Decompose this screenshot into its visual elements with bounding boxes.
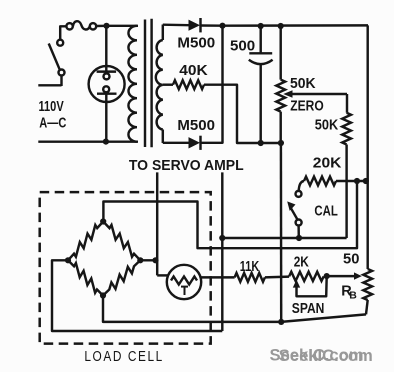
resistor RB: [363, 269, 372, 300]
wire 20K junction link: [336, 180, 368, 182]
node cap top: [258, 23, 264, 29]
wire secondary top lead: [163, 23, 189, 26]
node 2K right: [324, 273, 330, 279]
wire bottom run to RB: [281, 314, 366, 322]
node rectifier minus to bottom run: [278, 319, 284, 325]
node CAL bottom junction: [296, 235, 302, 241]
wire 40K to minus rail: [204, 85, 281, 143]
fuse F1 left terminal: [66, 23, 72, 29]
pot ZERO wiper arrow: [283, 90, 292, 98]
transformer T1 primary winding: [128, 26, 137, 142]
svg-text:110V: 110V: [39, 99, 64, 115]
pot SPAN wiper: [293, 280, 300, 288]
wire bottom node run: [103, 296, 281, 322]
bridge resistor top-right: [103, 222, 140, 261]
label T: [181, 286, 188, 288]
potentiometer 2K SPAN: [289, 272, 324, 281]
wire center tap: [163, 83, 173, 85]
wire switch to fuse: [60, 26, 66, 39]
wire 20K to switch: [299, 181, 304, 191]
wire bridge-top to 20K junction: [103, 181, 357, 248]
wire RB bottom tail: [366, 300, 368, 314]
wire 11K to 2K: [265, 275, 289, 278]
wire servo stub B: [221, 172, 223, 331]
lamp V1 bottom electrode disc: [103, 86, 109, 92]
wire D2 cathode riser: [201, 26, 223, 143]
capacitor C1 plate: [249, 52, 272, 54]
lamp V1 top electrode disc: [104, 73, 110, 79]
node zero top: [278, 23, 284, 29]
svg-text:SPAN: SPAN: [292, 301, 325, 317]
wire zero top lead: [279, 26, 281, 80]
wire fuse to node: [96, 25, 106, 28]
svg-text:SeekIC.com: SeekIC.com: [279, 346, 373, 365]
transformer T1 core: [144, 20, 146, 148]
node bridge-right junction: [152, 257, 158, 263]
svg-text:M500: M500: [177, 36, 215, 52]
svg-text:2K: 2K: [294, 255, 310, 271]
switch CAL top contact: [296, 191, 302, 197]
svg-text:A—C: A—C: [39, 116, 66, 132]
node lamp-top junction: [103, 23, 109, 29]
wire lamp top lead: [105, 26, 107, 72]
node D1-D2 cathode junction: [219, 23, 225, 29]
svg-text:B: B: [349, 289, 357, 301]
thermistor T1 envelope: [167, 265, 201, 299]
wire 2K to RB arrow: [327, 275, 358, 277]
fuse F1 right terminal: [90, 23, 96, 29]
wire zero bottom lead: [279, 112, 281, 143]
lamp V1 top electrode bar: [97, 70, 117, 72]
node cap bottom: [258, 140, 264, 146]
svg-text:TO SERVO AMPL: TO SERVO AMPL: [129, 157, 244, 174]
node lamp-bottom junction: [103, 139, 109, 145]
wire + rail top: [223, 24, 369, 27]
diode D1 M500: [189, 20, 201, 31]
fuse F1 element: [73, 21, 90, 29]
diode D2 M500: [189, 137, 201, 148]
switch CAL blade: [291, 208, 298, 219]
node minus rail end: [278, 140, 284, 146]
svg-text:20K: 20K: [313, 155, 342, 171]
node 20K right inner: [354, 178, 360, 184]
switch S1 blade: [49, 44, 60, 70]
wire left node run: [52, 260, 222, 331]
wire servo stub A: [156, 172, 158, 275]
svg-text:50K: 50K: [315, 117, 339, 133]
node 20K right outer: [363, 178, 369, 184]
wire stub A to thermistor: [157, 274, 168, 276]
capacitor C1 bottom lead: [259, 65, 261, 144]
svg-text:50: 50: [343, 252, 359, 268]
potentiometer 50K ZERO: [276, 80, 285, 112]
wire minus rail drop: [280, 143, 283, 322]
resistor 40K: [173, 80, 204, 89]
wire node to primary top: [107, 25, 139, 27]
capacitor C1 500 top lead: [259, 26, 261, 53]
switch S1 upper contact: [57, 40, 63, 46]
svg-text:11K: 11K: [240, 259, 260, 275]
thermistor element: [171, 277, 197, 285]
bridge resistor bottom-left: [68, 260, 103, 295]
wire D1 to +rail: [201, 24, 223, 27]
wire AC bottom rail: [38, 140, 138, 142]
lamp V1 bottom electrode bar: [97, 92, 117, 94]
wire lamp bottom lead: [105, 94, 107, 142]
svg-text:40K: 40K: [179, 63, 208, 79]
svg-text:LOAD CELL: LOAD CELL: [84, 348, 163, 365]
bridge resistor bottom-right: [103, 260, 140, 295]
resistor 20K: [304, 177, 336, 186]
node servo-B to CAL line: [219, 235, 225, 241]
wire wiper to 50K: [346, 94, 348, 113]
wire + rail right edge: [366, 25, 368, 269]
wire AC input lead (lower): [38, 84, 61, 86]
svg-text:CAL: CAL: [314, 203, 338, 219]
transformer T1 secondary winding: [156, 40, 163, 130]
resistor 11K: [235, 273, 265, 282]
lamp V1 envelope: [89, 66, 125, 102]
wire thermistor to 11K: [201, 276, 235, 278]
node bridge left: [65, 257, 71, 263]
wire 50K to CAL line: [345, 145, 347, 239]
wire secondary bottom lead: [163, 142, 189, 144]
svg-text:500: 500: [230, 39, 255, 55]
capacitor C1 curved plate: [249, 60, 273, 64]
switch S1 lower contact: [59, 70, 65, 76]
bridge resistor top-left: [68, 222, 103, 261]
svg-text:50K: 50K: [290, 76, 316, 92]
wire CAL bottom stub: [297, 226, 300, 239]
svg-text:ZERO: ZERO: [290, 99, 323, 115]
node bridge bottom: [100, 292, 106, 298]
resistor 50K series: [342, 113, 351, 145]
switch CAL bottom contact: [296, 220, 302, 226]
node bridge top: [100, 218, 106, 224]
wire bridge right to stub A: [140, 259, 157, 261]
wire CAL line: [222, 237, 346, 239]
node bridge right: [137, 257, 143, 263]
svg-text:M500: M500: [177, 118, 215, 134]
enclosure LOAD CELL box: [40, 192, 211, 344]
